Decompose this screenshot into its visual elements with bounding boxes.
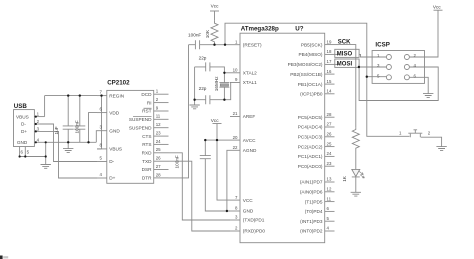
IC U2 CP2102 body xyxy=(107,90,154,183)
svg-text:26: 26 xyxy=(327,132,332,137)
ATmega left stubs pins 1 10 9 21 20 22 7 8 3 2 xyxy=(230,44,240,46)
svg-text:REGIN: REGIN xyxy=(109,93,124,98)
svg-text:20: 20 xyxy=(233,135,238,140)
svg-text:CP2102: CP2102 xyxy=(107,80,130,87)
svg-text:1K: 1K xyxy=(342,175,347,182)
svg-text:DTR: DTR xyxy=(142,176,152,181)
svg-text:AGND: AGND xyxy=(243,148,257,153)
svg-text:Vcc: Vcc xyxy=(211,118,219,123)
svg-text:RXD: RXD xyxy=(142,151,153,156)
wire ICSP pin2 to Vcc xyxy=(409,10,438,57)
svg-text:AVCC: AVCC xyxy=(243,138,256,143)
svg-text:28: 28 xyxy=(327,112,332,117)
svg-text:(RESET): (RESET) xyxy=(243,42,262,47)
svg-text:23: 23 xyxy=(156,131,161,136)
ATmega right stubs pins 28 27 26 25 24 23 xyxy=(325,116,335,118)
wire reset top rail to ICSP and button xyxy=(225,23,410,136)
svg-text:(INT0)PD2: (INT0)PD2 xyxy=(300,229,323,234)
svg-text:100nF: 100nF xyxy=(188,32,201,37)
ground crystal caps xyxy=(194,100,196,105)
ground ICSP xyxy=(423,94,433,98)
CP2102 left stubs pins 7 6 3 8 5 4 xyxy=(97,95,107,97)
svg-text:25: 25 xyxy=(156,147,161,152)
wire D+ to CP2102 xyxy=(40,131,97,178)
svg-text:DCD: DCD xyxy=(141,92,152,97)
svg-text:16: 16 xyxy=(327,69,332,74)
wire MOSI to ICSP pin3 xyxy=(359,64,386,67)
svg-text:21: 21 xyxy=(233,111,238,116)
svg-text:SCK: SCK xyxy=(338,40,351,46)
svg-text:SUSPEND: SUSPEND xyxy=(129,117,152,122)
wire RXD to ATmega TXD pin3 xyxy=(169,153,231,220)
svg-text:22p: 22p xyxy=(199,56,207,61)
svg-text:26: 26 xyxy=(156,156,161,161)
svg-text:Vcc: Vcc xyxy=(211,3,219,8)
diode D1 LED xyxy=(352,169,360,192)
wire CP2102 VBUS stub link xyxy=(97,148,102,150)
svg-text:VBUS: VBUS xyxy=(16,114,29,119)
svg-text:MOSI: MOSI xyxy=(337,62,353,68)
svg-text:(AIN1)PD7: (AIN1)PD7 xyxy=(300,180,323,185)
resistor R1 10K pullup xyxy=(211,20,218,44)
ATmega right stubs pins 19 18 17 16 15 14 xyxy=(325,44,340,46)
capacitor C3 22p top xyxy=(195,62,225,72)
wire SCK down to LED resistor xyxy=(339,45,355,128)
wire AGND to GND xyxy=(227,150,230,211)
USB pin 5 shield stub xyxy=(24,147,26,157)
capacitor C 1uF xyxy=(63,96,74,143)
ICSP pin 4 circle xyxy=(404,65,409,70)
wire XTAL1 xyxy=(224,83,230,100)
svg-text:D+: D+ xyxy=(109,176,115,181)
wire reset to ICSP pin5 xyxy=(367,76,387,78)
wire GND pin3 branch xyxy=(89,113,98,143)
svg-text:10: 10 xyxy=(233,68,238,73)
svg-text:12: 12 xyxy=(327,187,332,192)
svg-text:PC1(ADC1): PC1(ADC1) xyxy=(298,154,323,159)
svg-text:USB: USB xyxy=(14,103,28,110)
svg-text:1uF: 1uF xyxy=(54,126,59,134)
svg-text:11: 11 xyxy=(156,114,161,119)
USB pin 1 VBUS stub xyxy=(34,116,44,118)
wire DTR to reset capacitor xyxy=(169,45,189,178)
svg-text:ICSP: ICSP xyxy=(375,41,389,48)
USB pin 4 GND stub xyxy=(34,141,45,143)
svg-text:VBUS: VBUS xyxy=(109,147,122,152)
svg-text:16MHz: 16MHz xyxy=(214,76,219,92)
ICSP pin 1 circle xyxy=(386,55,391,60)
svg-text:CTS: CTS xyxy=(142,134,151,139)
svg-text:GND: GND xyxy=(243,209,254,214)
connector J2 ICSP body xyxy=(372,51,424,84)
wire XTAL2 xyxy=(224,72,230,74)
wire AVCC branch xyxy=(217,139,230,141)
svg-text:D-: D- xyxy=(21,122,26,127)
push button contacts xyxy=(408,130,422,137)
svg-text:D+: D+ xyxy=(21,129,27,134)
svg-text:PB2(SS/OC1B): PB2(SS/OC1B) xyxy=(290,72,323,77)
svg-text:(AIN0)PD6: (AIN0)PD6 xyxy=(300,190,323,195)
capacitor C4 22p bottom xyxy=(195,67,225,104)
ICSP pin 3 circle xyxy=(386,65,391,70)
wire VBUS riser to REGIN line xyxy=(44,96,46,117)
ATmega right stubs pins 13 12 11 6 5 4 xyxy=(325,181,335,183)
svg-text:PC5(ADC5): PC5(ADC5) xyxy=(298,115,323,120)
svg-text:RI: RI xyxy=(147,100,152,105)
wire MISO to ICSP pin1 xyxy=(359,54,386,57)
wire ICSP pin6 to ground xyxy=(409,77,428,93)
net label box MOSI xyxy=(335,59,359,67)
power Vcc above R1 xyxy=(214,11,216,20)
svg-text:RTS: RTS xyxy=(142,142,151,147)
svg-text:SUSPEND: SUSPEND xyxy=(129,125,152,130)
svg-text:(INT1)PD3: (INT1)PD3 xyxy=(300,219,323,224)
svg-text:(ICP1)PB0: (ICP1)PB0 xyxy=(300,92,323,97)
svg-text:17: 17 xyxy=(327,59,332,64)
svg-text:10K: 10K xyxy=(205,29,210,38)
svg-text:XTAL1: XTAL1 xyxy=(243,80,257,85)
capacitor C5 100nF AVCC xyxy=(200,140,230,211)
svg-text:GND: GND xyxy=(17,140,28,145)
wire reset node to ATmega pin1 xyxy=(215,44,231,46)
svg-text:14: 14 xyxy=(327,89,332,94)
svg-text:12: 12 xyxy=(156,122,161,127)
svg-text:(T0)PD4: (T0)PD4 xyxy=(305,209,323,214)
ICSP pin 2 circle xyxy=(404,55,409,60)
svg-text:(RXD)PD0: (RXD)PD0 xyxy=(243,229,266,234)
IC U? ATmega328p body xyxy=(240,33,325,243)
LED arrows xyxy=(359,171,363,174)
svg-text:ATmega328p: ATmega328p xyxy=(241,25,279,32)
USB pin 2 D- stub xyxy=(34,123,40,125)
svg-text:13: 13 xyxy=(327,177,332,182)
resistor R2 1K LED xyxy=(352,128,359,170)
net label box MISO xyxy=(335,49,359,57)
junction node dots xyxy=(35,116,37,118)
power Vcc ICSP xyxy=(434,9,443,11)
svg-text:27: 27 xyxy=(156,164,161,169)
svg-text:24: 24 xyxy=(156,139,161,144)
svg-text:22: 22 xyxy=(233,145,238,150)
svg-text:TXD: TXD xyxy=(142,159,152,164)
svg-text:PC3(ADC3): PC3(ADC3) xyxy=(298,135,323,140)
overline SUSPEND xyxy=(133,116,152,118)
ground LED xyxy=(351,192,361,196)
svg-text:22p: 22p xyxy=(199,86,207,91)
svg-text:25: 25 xyxy=(327,141,332,146)
wire MOSI loop to ICSP pin4 xyxy=(359,67,438,101)
wire node 5V REGIN line xyxy=(45,95,97,97)
ground main rail xyxy=(67,142,69,148)
svg-text:XTAL2: XTAL2 xyxy=(243,71,257,76)
svg-text:PC2(ADC2): PC2(ADC2) xyxy=(298,144,323,149)
svg-text:PB5(SCK): PB5(SCK) xyxy=(301,42,323,47)
svg-text:(T1)PD5: (T1)PD5 xyxy=(305,199,323,204)
svg-text:18: 18 xyxy=(327,49,332,54)
svg-text:100nF: 100nF xyxy=(174,155,179,168)
wire USB shield to ground net xyxy=(20,142,46,156)
USB pin 6 shield stub xyxy=(19,147,21,157)
power Vcc AVCC xyxy=(213,123,222,125)
svg-text:PB3(MOSI/OC2): PB3(MOSI/OC2) xyxy=(288,62,323,67)
USB pin 3 D+ stub xyxy=(34,130,40,132)
svg-text:100nF: 100nF xyxy=(74,120,79,133)
svg-text:Vcc: Vcc xyxy=(433,4,441,9)
svg-text:15: 15 xyxy=(327,79,332,84)
overline RST xyxy=(144,107,152,109)
wire VBUS pin8 riser xyxy=(101,96,103,149)
svg-text:DSR: DSR xyxy=(142,167,153,172)
wire D- to CP2102 xyxy=(40,124,97,162)
svg-text:RST: RST xyxy=(142,109,152,114)
svg-text:VDD: VDD xyxy=(109,110,120,115)
ICSP pin 6 circle xyxy=(404,75,409,80)
wire Vcc to AVCC and VCC xyxy=(217,124,230,201)
wire button pin2 to ground xyxy=(421,137,442,146)
svg-text:11: 11 xyxy=(327,196,332,201)
svg-text:PB1(OC1A): PB1(OC1A) xyxy=(298,82,323,87)
capacitor C 100nF (USB) xyxy=(74,96,85,143)
wire VDD branch xyxy=(95,131,98,143)
crystal X1 16MHz xyxy=(219,73,229,100)
svg-text:VCC: VCC xyxy=(243,198,254,203)
connector J1 USB xyxy=(14,110,35,147)
capacitor C2 100nF reset xyxy=(189,40,215,49)
svg-text:GND: GND xyxy=(109,128,120,133)
svg-text:19: 19 xyxy=(327,39,332,44)
svg-text:PC4(ADC4): PC4(ADC4) xyxy=(298,125,323,130)
ground under USB shield xyxy=(45,157,47,165)
ground button xyxy=(436,147,446,151)
corner watermark fragment xyxy=(0,256,3,259)
svg-text:27: 27 xyxy=(327,122,332,127)
svg-text:D-: D- xyxy=(109,159,114,164)
svg-text:MISO: MISO xyxy=(337,52,353,58)
svg-text:23: 23 xyxy=(327,161,332,166)
svg-text:28: 28 xyxy=(156,172,161,177)
svg-text:PC0(ADC0): PC0(ADC0) xyxy=(298,164,323,169)
ICSP pin 5 circle xyxy=(386,75,391,80)
svg-text:24: 24 xyxy=(327,151,332,156)
wire GND rail xyxy=(46,141,97,143)
CP2102 right stubs pins 1 2 9 11 12 23 24 25 26 27 28 xyxy=(154,93,169,95)
svg-text:U?: U? xyxy=(295,25,303,32)
svg-text:AREF: AREF xyxy=(243,114,256,119)
wire TXD to ATmega RXD pin2 xyxy=(169,161,231,231)
svg-text:PB4(MISO): PB4(MISO) xyxy=(299,52,323,57)
svg-text:(TXD)PD1: (TXD)PD1 xyxy=(243,218,265,223)
